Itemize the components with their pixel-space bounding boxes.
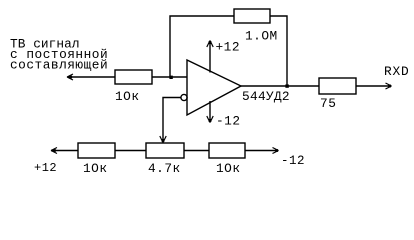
svg-text:1.ОМ: 1.ОМ [245,29,278,44]
svg-text:-12: -12 [281,154,305,168]
svg-text:составляющей: составляющей [10,57,108,72]
svg-text:+12: +12 [34,161,57,175]
svg-text:1Ок: 1Ок [83,161,108,176]
svg-text:1Ок: 1Ок [115,89,140,104]
svg-text:4.7к: 4.7к [148,161,181,176]
svg-text:-12: -12 [216,113,241,128]
svg-text:+12: +12 [216,40,241,55]
svg-text:544УД2: 544УД2 [242,89,290,104]
svg-text:75: 75 [320,96,337,111]
svg-text:RXD: RXD [384,64,409,79]
svg-text:1Ок: 1Ок [216,161,241,176]
